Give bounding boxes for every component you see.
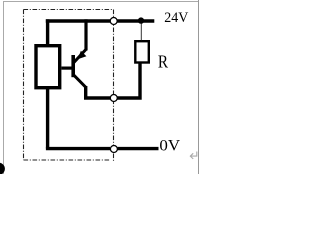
transistor Q1 emitter diagonal: [73, 49, 87, 64]
wire: sensor block top lead: [46, 19, 49, 46]
transistor Q1 base bar: [71, 55, 75, 77]
sensor enclosure dashed box left edge: [23, 10, 25, 161]
sensor block (rectangle): [36, 46, 60, 88]
wire: top supply rail inside box: [46, 19, 110, 22]
sensor enclosure dashed box top edge: [24, 9, 114, 11]
wire: base lead from block to transistor: [62, 66, 72, 69]
svg-text:0V: 0V: [159, 136, 180, 154]
terminal circle top (24V pin): [110, 18, 117, 25]
transistor Q1 emitter arrow (PNP, points into base bar): [78, 51, 87, 59]
page frame right border: [198, 0, 200, 174]
transistor Q1 collector diagonal: [74, 75, 87, 88]
svg-text:24V: 24V: [164, 10, 189, 26]
wire: sensor block bottom lead: [46, 88, 49, 149]
paragraph return mark: [190, 152, 197, 159]
page background: [0, 0, 201, 174]
terminal circle middle (output pin): [110, 95, 117, 102]
terminal circle bottom (0V pin): [110, 146, 117, 153]
junction dot on 24V rail: [138, 17, 144, 23]
wire: collector vertical drop: [84, 86, 87, 98]
wire: top rail from terminal to 24V label: [117, 19, 154, 22]
resistor R body: [135, 41, 149, 62]
wire: middle terminal to resistor bottom elbow: [117, 64, 140, 99]
wire: bottom 0V rail inside box: [46, 147, 110, 150]
transistor Q1 emitter vertical lead: [84, 19, 87, 50]
bullet marker bottom-left: [0, 163, 5, 175]
sensor enclosure dashed box bottom edge: [24, 159, 111, 161]
wire: output rail to middle terminal: [84, 96, 110, 99]
svg-text:R: R: [158, 51, 169, 71]
page frame left border: [3, 1, 5, 174]
sensor enclosure dashed box right edge: [113, 10, 115, 162]
wire: resistor thin top lead: [140, 22, 142, 40]
wire: bottom rail from terminal to 0V label: [118, 147, 159, 150]
page frame top border: [3, 1, 199, 3]
